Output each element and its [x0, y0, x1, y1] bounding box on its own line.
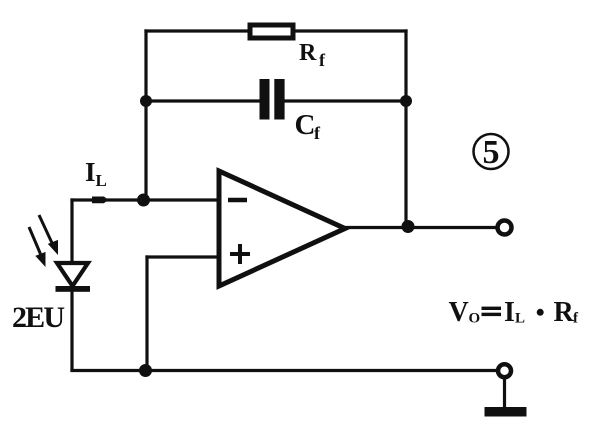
wire non-inverting vertical [145, 257, 148, 370]
svg-text:O: O [469, 311, 481, 327]
output terminal circle [498, 221, 512, 235]
svg-text:V: V [449, 297, 469, 328]
node junction cap-right [400, 95, 412, 107]
equation Vo = IL * Rf [449, 297, 580, 328]
photodiode light arrow 1 [29, 227, 46, 267]
wire capacitor right [284, 99, 406, 102]
node junction bottom rail [139, 364, 152, 377]
svg-text:5: 5 [483, 134, 500, 171]
wire left vertical [144, 31, 147, 200]
wire output [345, 226, 495, 229]
node junction inverting input [137, 194, 150, 207]
svg-text:2EU: 2EU [12, 301, 65, 334]
capacitor C1 plate left [260, 79, 270, 120]
wire ground stem [503, 377, 506, 408]
op-amp plus sign [230, 244, 250, 264]
node junction cap-left [140, 95, 152, 107]
photodiode D1 triangle [57, 263, 88, 286]
wire inverting input [72, 198, 219, 201]
wire photodiode cathode [70, 290, 73, 370]
svg-text:f: f [573, 311, 579, 327]
circled number 5 [474, 134, 509, 171]
svg-text:I: I [504, 297, 515, 328]
wire non-inverting input [147, 255, 219, 258]
photodiode D1 cathode bar [56, 286, 91, 292]
wire right vertical [404, 31, 407, 227]
svg-text:f: f [314, 123, 321, 143]
svg-text:R: R [554, 297, 575, 328]
svg-text:L: L [515, 311, 525, 327]
photodiode light arrow 2 [39, 215, 58, 255]
bottom terminal circle [498, 364, 511, 377]
op-amp U1 body [219, 171, 345, 286]
svg-text:C: C [295, 109, 316, 141]
capacitor C1 plate right [274, 79, 284, 120]
svg-text:f: f [319, 50, 326, 70]
ground bar [485, 407, 527, 417]
wire top feedback [146, 29, 406, 32]
current arrow IL on wire [92, 197, 108, 204]
wire photodiode anode [70, 200, 73, 262]
node junction output [402, 220, 415, 233]
op-amp minus sign [228, 198, 247, 203]
wire bottom rail [72, 369, 497, 372]
resistor R1 body [250, 25, 293, 38]
svg-text:IL: IL [85, 157, 107, 190]
wire capacitor left [146, 99, 260, 102]
svg-text:R: R [299, 40, 317, 66]
